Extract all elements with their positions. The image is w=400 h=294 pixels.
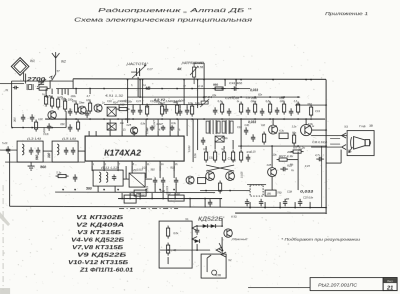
mic box [201,254,226,278]
junction 49 [11,127,13,129]
wire stub row 5 [179,105,181,109]
wire pin2 down [103,166,105,170]
junction 19 [191,88,193,90]
wire ic drop 5 [159,166,161,171]
IC pin top riser 5 [169,119,171,131]
wire stub row 0 [118,105,120,109]
wire v5 up [272,119,274,125]
junction 13 [89,88,91,90]
transistor V2 [78,106,86,114]
capacitor C28c [251,134,255,142]
junction 34 [132,118,134,120]
filter Z1 box [129,173,145,187]
transformer L11L12 box [93,170,123,186]
wire top bus [73,78,326,81]
junction 80 [240,145,242,147]
IC pin bottom 4 [131,161,133,166]
title block list box [383,278,397,291]
wire stub row 4 [165,105,167,109]
junction 0 [139,79,141,81]
wire spl top4 [232,140,234,149]
resistor R16 3.3k [56,174,69,177]
wire ic drop 6 [173,166,175,171]
capacitor C19 [289,108,293,116]
wire left rail [12,127,66,129]
capacitor C22 [161,177,165,185]
wire right col [240,119,242,149]
junction 76 [325,207,327,209]
junction 16 [146,88,148,90]
resistor R42 [166,243,169,256]
antenna W2 whip [49,52,59,81]
wire bottom drop 4 [162,193,164,199]
wire ic drop 2 [117,166,119,171]
wire pin16 down [173,166,175,178]
box 240 [134,190,146,196]
capacitor C6b [68,124,72,132]
transistor V7c [268,168,277,177]
junction 3 [235,79,237,81]
junction 83 [325,129,327,131]
junction 75 [309,207,311,209]
junction 46 [310,118,312,120]
junction 77 [325,212,327,214]
wire ic drop 0 [91,166,93,171]
junction 59 [173,189,175,191]
junction 66 [151,198,153,200]
junction 60 [205,190,207,192]
wire drop x204 [203,63,205,101]
junction 61 [219,190,221,192]
coil L5 [57,144,59,155]
mixer box [107,107,116,116]
capacitor C47 [259,199,263,207]
IC pin top riser 1 [109,119,111,131]
junction 84 [196,225,198,227]
IC pin top 9 [177,131,179,136]
junction 67 [162,198,164,200]
transistor V3 [94,104,102,112]
capacitor C23 [174,177,178,185]
capacitor C46x [316,157,324,161]
diode V5b [211,224,216,228]
junction 53 [62,189,64,191]
junction 85 [221,225,223,227]
wire below ic rail [55,191,215,194]
capacitor C32b [170,125,174,131]
connector X2 arrows [216,248,226,258]
wire box link [160,249,210,251]
transistor EP [130,127,137,134]
capacitor C8 [178,108,182,116]
junction 1 [203,79,205,81]
transformer T1 [206,120,220,134]
wire stub top 0 [45,89,47,95]
junction 78 [271,145,273,147]
capacitor C27b [244,127,248,135]
speaker BA1 [349,137,371,153]
wire into filter [0,149,17,151]
wire pin11 down [145,166,147,178]
resistor R23 [239,102,242,115]
wire spk top [311,135,347,137]
wire z1 left [123,178,129,180]
wire stub top 5 [89,89,91,95]
mic element [207,255,217,275]
wire drop x225 [224,80,226,87]
wire bottom drop 3 [151,193,153,199]
junction 86 [167,249,169,251]
transistor V11 [224,229,232,237]
wire spk return h [326,162,341,164]
capacitor C7 [164,106,168,114]
junction 27 [283,96,285,98]
resistor R4 [56,97,59,110]
wire v6 right [312,129,327,131]
junction 51 [31,127,33,129]
speaker box [347,131,374,156]
box 180 [265,190,276,196]
frame bottom line [248,287,310,289]
wire stub top 1 [51,89,53,95]
wire v7c down [271,177,273,191]
wire left return riser [9,153,11,206]
wire stub row 1 [132,105,134,109]
wire c23 down [162,184,164,192]
dash-dot line [119,208,178,210]
transistor V6 [300,124,311,135]
junction 33 [117,118,119,120]
IC pin top riser 4 [157,119,159,131]
junction 24 [240,96,242,98]
wire stub62 [61,89,63,96]
wire pin14 down [159,166,161,178]
resistor R15 [175,103,178,116]
capacitor C45 [208,199,212,207]
filter Z1 cross [129,173,145,187]
transistor V4b [186,176,194,184]
junction 29 [65,118,67,120]
capacitor C31b [161,125,165,131]
resistor R24 [253,102,256,115]
capacitor C41 [231,86,239,90]
wire bottom dropc 1 [264,202,266,208]
capacitor C48 [195,227,199,235]
wire ic drop 3 [131,166,133,171]
capacitor C9 [185,107,189,115]
wire l12 down [114,186,116,192]
wire stub top 3 [64,89,66,95]
wire stub row 7 [197,105,199,109]
junction 22 [139,96,141,98]
title block [310,278,383,291]
wire pin1 down [91,166,93,170]
resistor R22 [220,102,223,115]
junction 68 [174,198,176,200]
junction 39 [203,118,205,120]
capacitor C10 [138,107,142,115]
wire spk pair bot [330,143,340,145]
junction 81 [325,145,327,147]
junction 8 [142,79,144,81]
crystal ZQ [27,84,33,90]
junction 65 [139,198,141,200]
wire cross 2 [206,165,234,171]
resistor R32 [213,150,216,163]
junction 6 [310,79,312,81]
junction 5 [305,79,307,81]
junction 18 [176,88,178,90]
junction 17 [161,88,163,90]
coil L11 [99,172,101,182]
junction 79 [297,145,299,147]
junction 35 [146,118,148,120]
wire v6 up [305,119,307,125]
capacitor C4 [30,114,34,122]
resistor R7b [77,120,80,132]
junction 14 [103,88,105,90]
wire filter to ic [78,150,85,152]
connector X1 arrows [192,226,197,242]
junction 21 [221,88,223,90]
wire handset inner [167,257,169,264]
wire bottom drop 1 [129,193,131,199]
wire bottom dropc 3 [294,202,296,208]
capacitor C50 [298,199,302,207]
capacitor C9 [131,107,135,115]
wire ic right 2 [192,119,194,162]
wire bottom drop 5 [174,193,176,199]
capacitor C5 [68,108,72,116]
capacitor C12 [29,147,33,155]
variable capacitor C17 [131,65,146,78]
wire drop x142 [142,80,144,106]
filter L5L6 box [52,141,78,162]
resistor R14 [160,104,163,117]
wire bottom dropc 2 [279,202,281,208]
junction 20 [214,88,216,90]
junction 26 [269,96,271,98]
wire rf row rail [104,104,203,106]
list box header [384,278,397,283]
junction 73 [279,207,281,209]
wire l11 down [97,186,99,192]
IC pin bottom 3 [117,161,119,166]
capacitor C13 [36,147,40,155]
wire drop x140 [139,79,141,97]
wire stub68 [67,89,69,96]
capacitor C1 [13,86,19,90]
wire bottom dropc 0 [249,202,251,208]
resistor R6 [74,102,77,115]
junction 37 [176,118,178,120]
resistor R16 [190,104,193,117]
IC U1 K174XA2 body [85,136,184,161]
junction 11 [240,79,242,81]
transistor V5 [269,125,278,134]
wire W1 lead [23,73,25,82]
resistor R25 [268,102,271,115]
junction 58 [159,189,161,191]
wire spk return v [340,150,342,164]
resistor R1 [37,87,50,90]
junction 72 [264,207,266,209]
wire drop x127 [127,80,129,124]
wire stub top 2 [57,89,59,95]
wire ic right 3 [197,119,199,150]
resistor R34 [231,150,234,163]
wire drop x184 [183,80,185,106]
junction 57 [145,189,147,191]
junction 36 [161,118,163,120]
junction 41 [240,118,242,120]
capacitor C49 [283,199,287,207]
wire bottom bus2 [10,206,327,207]
capacitor C19b [112,175,116,181]
trimmer resistor R19 [190,63,198,84]
junction 56 [117,189,119,191]
wire v11 down [221,237,223,254]
wire bottom dropb 0 [189,199,191,208]
resistor R33b [222,150,225,163]
IC pin bottom 6 [159,161,161,166]
wire c21c22 down [154,184,156,192]
junction 50 [22,127,24,129]
IC pin top 6 [145,131,147,136]
wire c24 down [175,184,177,192]
resistor R30 [292,133,295,146]
wire spl top3 [223,146,225,149]
resistor R12 510 [117,107,130,110]
IC pin top 8 [169,131,171,136]
junction 23 [203,96,205,98]
IC pin bottom 5 [145,161,147,166]
capacitor C20 [73,174,77,182]
junction 64 [129,198,131,200]
IC pin top riser 2 [121,119,123,131]
junction 52 [51,127,53,129]
antenna W1 loop [11,58,29,76]
wire v7c [271,146,273,168]
resistor R31 [204,150,207,163]
wire r27 line [289,159,298,161]
junction 74 [294,207,296,209]
switch box S2 [168,195,184,201]
capacitor C16 [6,146,10,154]
wire splitter rail [200,190,250,192]
junction 7 [127,79,129,81]
resistor R2 [44,94,47,107]
wire mid seg [247,184,266,186]
capacitor C29b [246,154,250,162]
junction 4 [272,79,274,81]
wire diode row [196,225,222,227]
wire r19 top link [194,62,204,64]
resistor R13 [145,104,148,117]
wire stub top 4 [75,89,77,95]
wire stub row 2 [139,105,141,109]
capacitor C15b [71,147,75,155]
capacitor C6 [85,110,89,118]
capacitor C17 [260,108,264,116]
IC pin top 3 [109,131,111,136]
resistor R27 [277,158,290,161]
IC pin top 7 [157,131,159,136]
resistor R33 [309,105,312,118]
IC pin bottom 2 [103,161,105,166]
wire bus 3 [127,96,300,98]
wire bottom bus3 [118,198,222,200]
resistor R7 [88,101,91,114]
junction 45 [297,118,299,120]
wire spl top [205,146,207,149]
wire drop x197 [197,80,199,107]
capacitor C28b [280,167,288,171]
resistor R20 680 [213,87,226,90]
resistor R17b [291,150,304,153]
capacitor C46 [245,199,249,207]
box thermistor [279,133,288,139]
junction 82 [325,104,327,106]
wire spk bottom [311,146,341,148]
wire ant link long [12,80,74,82]
junction 70 [204,198,206,200]
resistor R27a [296,102,299,115]
diode V6b [195,239,200,243]
wire agc [295,104,326,106]
junction 38 [191,118,193,120]
wire rail up [65,111,67,128]
wire bus drop right [325,80,327,213]
junction 2 [224,79,226,81]
IC pin top 4 [121,131,123,136]
junction 28 [297,96,299,98]
wire rf rail [45,118,325,120]
transistor V7 [206,172,215,181]
resistor R28 [262,132,265,145]
capacitor C14 [213,107,217,115]
capacitor C3 [21,114,25,122]
wire ic drop 4 [145,166,147,171]
wire bus 2 [56,88,250,90]
junction 87 [196,249,198,251]
junction 55 [103,189,105,191]
IC pin bottom 7 [173,161,175,166]
junction 25 [254,96,256,98]
wire pin8 down [131,166,133,173]
capacitor C15 [227,108,231,116]
resistor R41 [166,226,169,239]
junction 30 [75,118,77,120]
diode V4 [203,224,208,228]
wire filter link [43,150,52,152]
capacitor C21 [153,177,157,185]
junction 12 [75,88,77,90]
junction 31 [89,118,91,120]
dashed tone box [250,185,263,196]
resistor R31b [239,150,242,163]
transistor V8 [226,172,235,181]
capacitor C30b [150,125,154,131]
wire z1 feed [125,166,127,179]
wire stub row 6 [186,105,188,109]
junction 15 [127,88,129,90]
resistor R26 [282,102,285,115]
wire out rail [238,145,326,147]
wire ic drop 1 [103,166,105,171]
IC pin top 1 [88,131,90,136]
junction 10 [197,79,199,81]
